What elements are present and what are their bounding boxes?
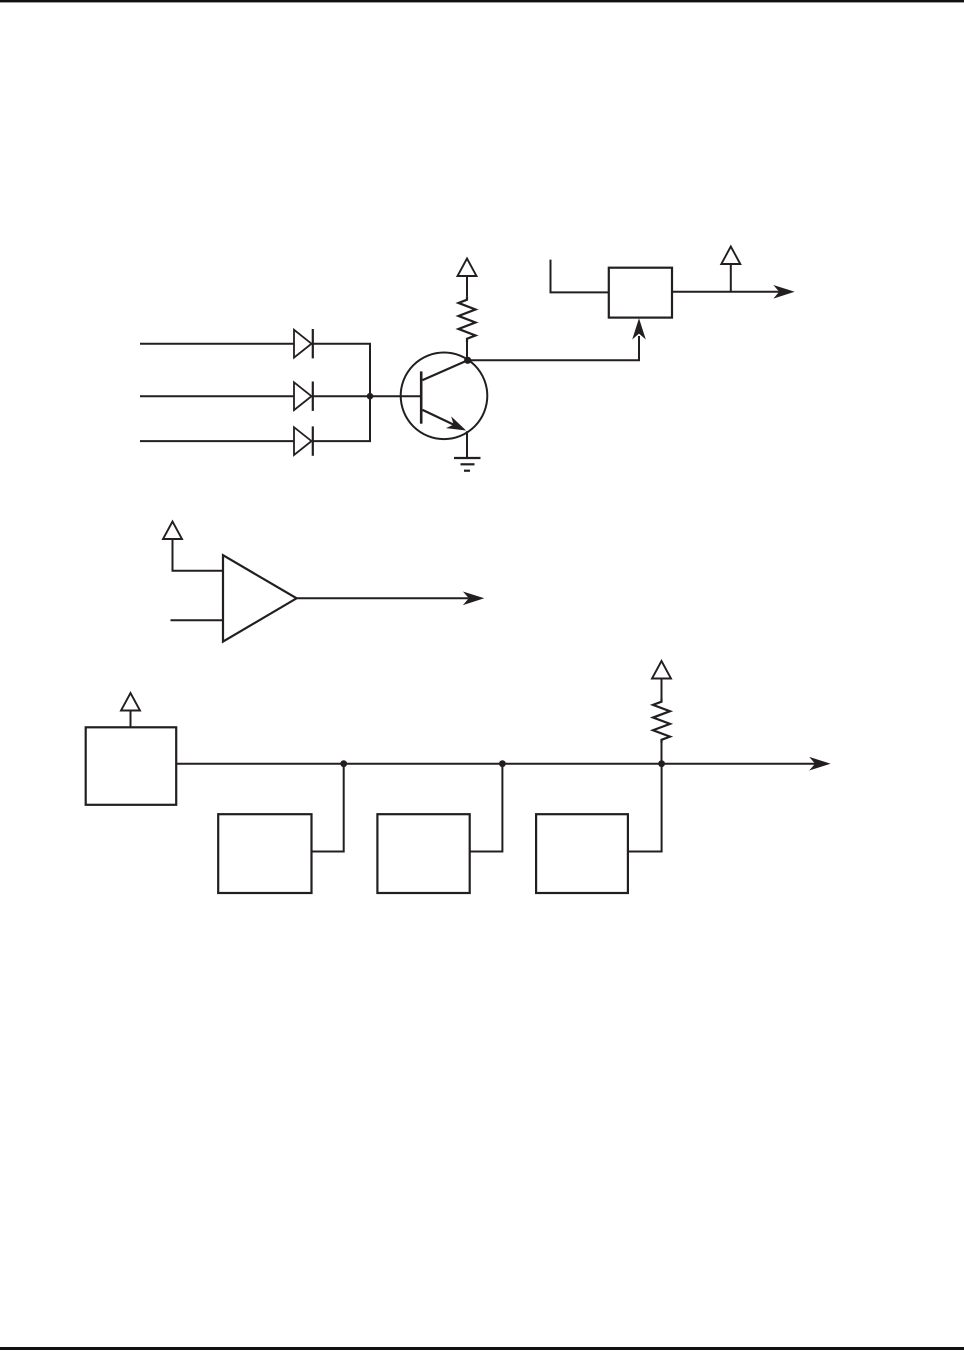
power symbol T3 [163, 522, 182, 540]
node D junction dot [499, 760, 506, 767]
wire collector node to resistor R1 [466, 342, 468, 360]
wire U1 left input stub [551, 260, 609, 293]
buffer U2 [223, 555, 297, 641]
wire D2 cathode to node A [313, 395, 370, 397]
wire U4 output to node C [312, 764, 344, 852]
wire D3 cathode to bus [313, 396, 370, 441]
ground [454, 458, 481, 471]
top page border bar [0, 0, 964, 2]
block U6 [536, 814, 628, 893]
wire VCC stub on U1 output [730, 264, 732, 292]
arrowhead U1 output [773, 285, 794, 299]
node C junction dot [340, 760, 347, 767]
diode D2 [294, 382, 313, 411]
wire R1 to VCC arrow T1 [466, 276, 468, 296]
wire D1 cathode to bus [313, 344, 370, 397]
wire U5 output to node D [470, 764, 503, 852]
wire collector node to U1 input arrow [468, 336, 639, 360]
node A junction dot [367, 393, 374, 400]
arrowhead U2 output [463, 592, 484, 606]
wire node E to resistor R2 [661, 743, 663, 764]
block U5 [377, 814, 469, 893]
wire node A to Q1 base [370, 395, 421, 397]
node B collector junction dot [464, 357, 471, 364]
wire U1 output [672, 291, 779, 293]
wire R2 to VCC arrow T5 [661, 679, 663, 699]
block U1 [609, 268, 672, 318]
wire U6 output to node E [628, 764, 662, 852]
wire U2 lower input [171, 619, 224, 621]
arrowhead into U1 bottom [632, 318, 646, 339]
wire input line 1 [140, 343, 294, 345]
node E junction dot [658, 760, 665, 767]
power symbol T2 [721, 247, 740, 265]
transistor Q1 [401, 353, 488, 440]
block U3 [86, 727, 177, 805]
wire T3 to U2 upper input [173, 539, 224, 571]
wire T4 to block U3 [130, 711, 132, 728]
power symbol T4 [121, 693, 140, 711]
diode D3 [294, 426, 313, 455]
resistor R1 [459, 296, 476, 342]
bottom page border bar [0, 1347, 964, 1350]
power symbol T5 [652, 661, 671, 679]
diode D1 [294, 329, 313, 358]
power symbol T1 [458, 259, 477, 277]
wire U2 output [297, 597, 469, 599]
wire main output bus [176, 763, 815, 765]
wire input line 2 [140, 395, 294, 397]
arrowhead main bus output [809, 757, 830, 771]
wire Q1 emitter to ground [466, 431, 468, 457]
wire input line 3 [140, 440, 294, 442]
block U4 [218, 814, 311, 893]
resistor R2 [653, 699, 670, 744]
